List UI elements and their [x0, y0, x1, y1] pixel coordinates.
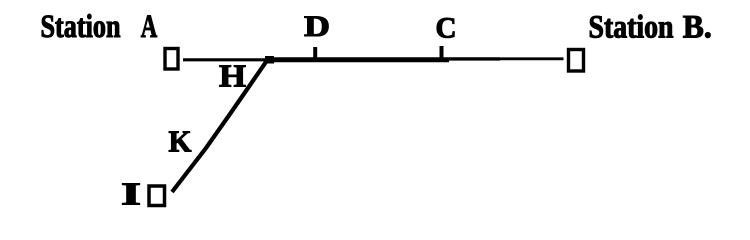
svg-text:Station: Station — [41, 9, 121, 45]
svg-text:A: A — [141, 9, 158, 45]
wire: main line thick middle segment junction to C — [268, 57, 449, 62]
station A marker (open square) — [165, 49, 178, 70]
svg-text:C: C — [436, 11, 457, 44]
svg-text:H: H — [219, 58, 246, 94]
instrument I marker (open square) — [149, 186, 165, 206]
wire: main line thin left segment A to junction — [183, 58, 270, 61]
svg-text:K: K — [169, 124, 192, 159]
station B marker (open square) — [569, 50, 584, 72]
svg-text:B.: B. — [683, 10, 712, 46]
svg-text:I: I — [121, 175, 141, 211]
tick at D — [313, 47, 317, 59]
junction blob — [265, 56, 274, 64]
tick at C — [440, 46, 444, 59]
wire: main line right segment C to B — [449, 57, 500, 60]
svg-text:D: D — [304, 10, 330, 43]
label Station A — [41, 9, 158, 45]
label Station B. — [589, 10, 712, 46]
svg-text:Station: Station — [589, 10, 674, 46]
wire: diagonal from junction to I — [172, 58, 269, 193]
